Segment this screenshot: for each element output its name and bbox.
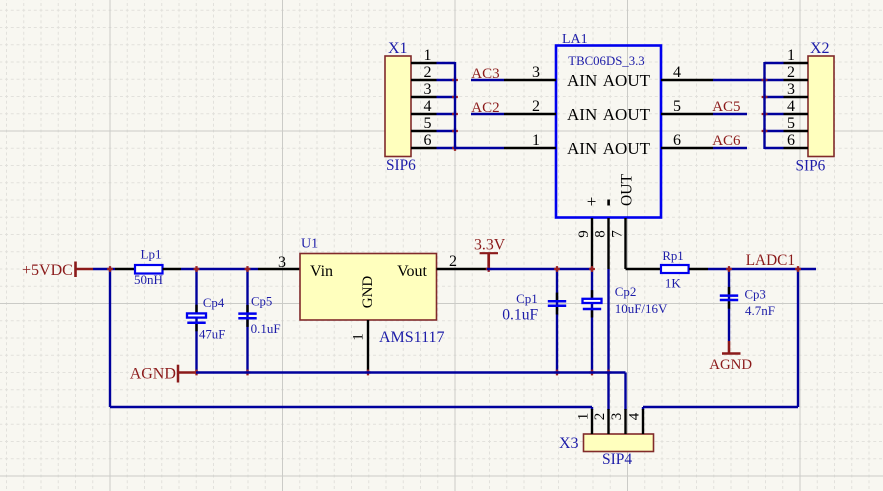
svg-text:AIN: AIN: [567, 105, 597, 124]
regulator U1 AMS1117: [300, 254, 437, 321]
svg-text:3: 3: [278, 254, 286, 271]
svg-text:Rp1: Rp1: [662, 249, 683, 263]
junction Cp2 / pin9: [589, 266, 595, 272]
svg-text:AC5: AC5: [712, 99, 740, 115]
svg-text:SIP6: SIP6: [796, 158, 826, 175]
svg-text:4: 4: [627, 412, 643, 420]
X2 pin 5 line: [784, 130, 809, 132]
wire +5VDC to Lp1: [93, 268, 115, 270]
Rp1 left pin / LA1 pin7 connection: [626, 268, 662, 270]
wire X1 bus to LA1 pin1: [455, 147, 504, 149]
connector X1: [385, 56, 411, 157]
wire X2 bus vertical: [763, 62, 765, 149]
X1 pin 4 wire to bus: [437, 113, 456, 115]
LA1 pin 9 line: [591, 218, 593, 269]
svg-text:U1: U1: [301, 237, 318, 252]
wire AGND bus down to X3 pin3: [624, 373, 626, 411]
svg-text:2: 2: [532, 98, 540, 115]
capacitor Cp1: [548, 293, 566, 315]
svg-text:5: 5: [673, 98, 681, 115]
svg-text:LADC1: LADC1: [746, 252, 795, 269]
svg-text:Cp3: Cp3: [745, 288, 766, 302]
svg-text:Vin: Vin: [310, 263, 333, 280]
svg-text:AIN: AIN: [567, 71, 597, 90]
X2 pin 6 wire to bus: [765, 147, 784, 149]
junction X1 bus y=80: [452, 77, 458, 83]
svg-text:2: 2: [449, 253, 457, 270]
wire LADC1 feed vertical: [797, 269, 799, 407]
wire rail through Cp4 to AGND bus: [195, 269, 197, 373]
svg-text:0.1uF: 0.1uF: [251, 321, 281, 336]
X1 pin 6 wire to bus: [437, 147, 456, 149]
svg-text:1: 1: [424, 47, 432, 64]
svg-text:LA1: LA1: [562, 32, 588, 47]
wire 3.3V rail to LA1 pin9: [487, 268, 592, 270]
capacitor Cp5: [238, 305, 256, 327]
LA1 pin 7 line: [624, 218, 626, 269]
junction Cp4 top: [194, 266, 200, 272]
X1 pin 2 line: [411, 79, 437, 81]
wire AC2 stub: [471, 113, 504, 115]
capacitor Cp2 (polarized): [583, 290, 602, 317]
svg-text:Cp5: Cp5: [251, 295, 272, 309]
junction Cp5 bottom: [245, 370, 251, 376]
svg-text:6: 6: [673, 132, 681, 149]
capacitor Cp3: [720, 287, 738, 309]
wire rail through Cp5 to AGND bus: [246, 269, 248, 373]
port AGND (under Cp3): [728, 341, 731, 354]
junction U1 GND: [365, 370, 371, 376]
wire +5V feed vertical: [109, 269, 111, 407]
junction Cp5 top: [245, 266, 251, 272]
X1 pin 4 line: [411, 113, 437, 115]
Rp1 right pin: [689, 268, 708, 270]
svg-text:2: 2: [424, 64, 432, 81]
wire AGND bus: [196, 371, 626, 373]
svg-text:6: 6: [424, 132, 432, 149]
svg-text:9: 9: [576, 230, 592, 238]
junction 3.3V tap: [486, 266, 492, 272]
svg-text:50nH: 50nH: [134, 272, 163, 287]
junction X2 bus y=97: [762, 94, 768, 100]
junction X1 bus y=148: [452, 145, 458, 151]
X2 pin 4 wire to bus: [765, 113, 784, 115]
svg-text:OUT: OUT: [619, 174, 636, 206]
junction Cp4 bottom: [194, 370, 200, 376]
junction Cp2 bottom: [589, 370, 595, 376]
Lp1 right pin: [163, 268, 182, 270]
X1 pin 3 line: [411, 96, 437, 98]
wire LA1 pin4 to X2 bus: [713, 79, 765, 81]
X2 pin 2 line: [784, 79, 809, 81]
X1 pin 2 wire to bus: [437, 79, 456, 81]
X1 pin 6 line: [411, 147, 437, 149]
svg-text:TBC06DS_3.3: TBC06DS_3.3: [568, 54, 644, 68]
svg-text:3.3V: 3.3V: [474, 237, 506, 254]
wire X1 bus vertical: [454, 62, 456, 149]
LA1 pin 1 line: [504, 147, 556, 149]
svg-text:1: 1: [787, 47, 795, 64]
connector X2: [808, 56, 834, 157]
junction X1 bus y=97: [452, 94, 458, 100]
svg-text:Lp1: Lp1: [141, 246, 162, 261]
svg-text:5: 5: [787, 115, 795, 132]
X2 pin 1 line: [784, 62, 809, 64]
svg-text:AIN: AIN: [567, 139, 597, 158]
X2 pin 4 line: [784, 113, 809, 115]
wire AC5 stub: [713, 113, 747, 115]
inductor Lp1: [135, 265, 163, 274]
svg-text:+5VDC: +5VDC: [22, 262, 73, 279]
svg-text:7: 7: [610, 230, 626, 238]
svg-text:3: 3: [532, 64, 540, 81]
svg-text:SIP4: SIP4: [602, 451, 632, 468]
svg-text:+: +: [587, 192, 597, 211]
svg-text:GND: GND: [360, 276, 376, 309]
svg-text:Cp1: Cp1: [516, 291, 538, 306]
svg-text:X1: X1: [388, 40, 408, 57]
svg-text:1: 1: [532, 132, 540, 149]
connector X3: [584, 434, 654, 452]
wire LADC1: [708, 268, 816, 270]
svg-text:SIP6: SIP6: [386, 157, 416, 174]
svg-text:AGND: AGND: [709, 357, 752, 373]
svg-text:8: 8: [593, 230, 609, 238]
junction X2 bus y=131: [762, 128, 768, 134]
svg-text:X3: X3: [559, 435, 579, 452]
svg-text:Cp2: Cp2: [615, 284, 637, 299]
junction X2 bus y=114: [762, 111, 768, 117]
LA1 pin 2 line: [504, 113, 556, 115]
X2 pin 6 line: [784, 147, 809, 149]
svg-text:X2: X2: [810, 40, 830, 57]
U1 pin 1 line: [367, 320, 369, 373]
Lp1 left pin: [115, 268, 135, 270]
svg-text:4: 4: [424, 98, 432, 115]
svg-text:2: 2: [787, 64, 795, 81]
capacitor Cp4 (polarized): [187, 305, 206, 332]
svg-text:3: 3: [787, 81, 795, 98]
X1 pin 1 line: [411, 62, 437, 64]
svg-text:1: 1: [576, 413, 592, 421]
X2 pin 5 wire to bus: [765, 130, 784, 132]
svg-text:1: 1: [351, 333, 367, 341]
wire AC3 stub: [471, 79, 504, 81]
junction pin8 / X3 pin2: [606, 370, 612, 376]
X2 pin 3 wire to bus: [765, 96, 784, 98]
svg-text:47uF: 47uF: [199, 327, 225, 341]
svg-text:10uF/16V: 10uF/16V: [615, 301, 668, 316]
X3 pin 1 line: [591, 409, 593, 434]
svg-text:4.7nF: 4.7nF: [745, 303, 775, 318]
svg-text:3: 3: [424, 81, 432, 98]
svg-text:AOUT: AOUT: [603, 105, 651, 124]
wire +5V feed to X3 pin1: [110, 406, 592, 408]
svg-text:Cp4: Cp4: [203, 296, 225, 310]
svg-text:3: 3: [609, 413, 625, 421]
port AGND bar (left): [177, 365, 180, 383]
junction X1 bus y=131: [452, 128, 458, 134]
X1 pin 1 wire to bus: [437, 62, 456, 64]
LA1 pin 5 line: [661, 113, 713, 115]
filter U-block LA1 TBC06DS_3.3: [556, 46, 661, 218]
svg-text:AOUT: AOUT: [603, 71, 651, 90]
X2 pin 1 wire to bus: [765, 62, 784, 64]
X2 pin 3 line: [784, 96, 809, 98]
wire corner X3 pin4: [642, 407, 644, 410]
svg-text:4: 4: [787, 98, 795, 115]
LA1 pin 4 line: [661, 79, 713, 81]
svg-text:AGND: AGND: [130, 366, 176, 383]
wire AC6 stub: [713, 147, 747, 149]
wire corner X3 pin1: [591, 407, 593, 410]
U1 pin 2 line: [437, 268, 488, 270]
X2 pin 2 wire to bus: [765, 79, 784, 81]
svg-text:Vout: Vout: [397, 263, 427, 280]
LA1 pin name - (rotated dash): [607, 200, 610, 206]
svg-text:AMS1117: AMS1117: [379, 329, 445, 346]
LA1 pin 8 line: [607, 218, 609, 269]
junction X2 bus y=80: [762, 77, 768, 83]
port +5VDC bar: [74, 262, 77, 278]
svg-text:AOUT: AOUT: [603, 139, 651, 158]
junction X1 bus y=114: [452, 111, 458, 117]
svg-text:0.1uF: 0.1uF: [502, 306, 538, 323]
wire Lp1 to U1 Vin: [181, 268, 258, 270]
port 3.3V bar: [480, 252, 498, 254]
X1 pin 5 line: [411, 130, 437, 132]
junction Cp1 top: [554, 266, 560, 272]
X3 pin 4 line: [642, 409, 644, 434]
wire LADC1 through Cp3 to AGND port: [728, 269, 730, 341]
wire LADC1 feed to X3 pin4: [643, 406, 798, 408]
X3 pin 2 line: [607, 409, 609, 434]
wire LA1 pin8 to AGND bus: [607, 269, 609, 373]
svg-text:2: 2: [592, 413, 608, 421]
X1 pin 5 wire to bus: [437, 130, 456, 132]
X3 pin 3 line: [624, 409, 626, 434]
junction Cp1 bottom: [554, 370, 560, 376]
svg-text:6: 6: [787, 132, 795, 149]
svg-text:1K: 1K: [665, 276, 682, 291]
wire rail through Cp2 to AGND bus: [591, 269, 593, 373]
junction Cp3 tap: [726, 266, 732, 272]
resistor Rp1: [661, 265, 689, 273]
svg-text:4: 4: [673, 64, 681, 81]
junction LADC1 to X3 feed: [795, 266, 801, 272]
LA1 pin 3 line: [504, 79, 556, 81]
LA1 pin 6 line: [661, 147, 713, 149]
svg-text:5: 5: [424, 115, 432, 132]
wire rail through Cp1 to AGND bus: [556, 269, 558, 373]
junction +5V rail / bottom feed: [107, 266, 113, 272]
X1 pin 3 wire to bus: [437, 96, 456, 98]
wire AGND to X3 pin2: [607, 373, 609, 411]
U1 pin 3 line: [258, 268, 300, 270]
